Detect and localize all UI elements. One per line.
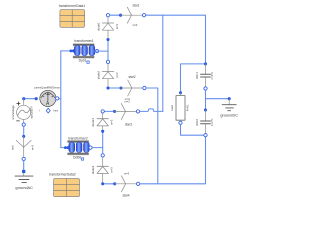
junction below diode3 — [101, 130, 104, 133]
star3 — [115, 100, 140, 127]
wire transformer2.plug2 to diode column 2 — [92, 147, 103, 149]
junction below diode4 — [101, 182, 104, 185]
wire sensor.plug_n to feeder rail — [59, 98, 61, 100]
svg-text:diode1: diode1 — [96, 22, 100, 31]
junction below diode1 — [106, 38, 109, 41]
svg-text:Dd06: Dd06 — [73, 155, 81, 159]
svg-text:m=3: m=3 — [124, 100, 130, 104]
svg-text:star1: star1 — [132, 4, 139, 8]
voltage source sineVoltage — [11, 99, 34, 127]
svg-text:groundAC: groundAC — [15, 185, 33, 190]
wire star2.pin_n to -DC vertical — [146, 88, 158, 184]
junction at star2 plug — [119, 86, 122, 89]
wire +DC vertical drop — [162, 15, 164, 111]
wire star3.pin_n with hop to +DC vertical — [140, 109, 163, 112]
svg-text:cDC1: cDC1 — [195, 72, 199, 79]
svg-text:m=3: m=3 — [132, 23, 138, 27]
star2 — [121, 75, 146, 101]
svg-text:currentQuasiRMSSensor: currentQuasiRMSSensor — [34, 87, 60, 90]
svg-text:transformerData1: transformerData1 — [59, 4, 85, 8]
wire star.pin_n to groundAC — [23, 161, 25, 172]
wire feeder to transformer1 — [61, 50, 71, 52]
wire +DC node to load top — [181, 64, 206, 93]
svg-text:star2: star2 — [128, 75, 135, 79]
svg-text:Dy01: Dy01 — [79, 59, 87, 63]
wire feeder to transformer2 — [61, 147, 66, 149]
star1 — [121, 4, 146, 28]
svg-text:C=2*C: C=2*C — [210, 118, 214, 126]
wire diode4.plug_n to star4 — [103, 183, 115, 185]
junction below diode2 — [106, 86, 109, 89]
junction at star3 plug — [113, 110, 116, 113]
wire diode2.plug_n to star2 — [108, 87, 121, 89]
junction at star4 plug — [113, 182, 116, 185]
wire cDC1 bottom to midpoint — [205, 90, 207, 110]
wire star4.pin_n -DC rail to cDC2 bottom — [140, 137, 206, 184]
wire sineVoltage.plug_p to currentQuasiRMSSensor.plug_p — [24, 98, 37, 100]
svg-text:I: I — [39, 110, 40, 113]
svg-text:sqrt(2/3)*V: sqrt(2/3)*V — [30, 106, 34, 119]
svg-text:star3: star3 — [125, 123, 132, 127]
record transformerData2 — [49, 172, 79, 196]
junction at sineVoltage top plug — [22, 97, 25, 100]
diode D3 diode3 — [91, 110, 114, 130]
svg-text:load: load — [170, 105, 174, 111]
star (AC neutral) — [11, 136, 35, 160]
wire transformer1.plug2 to diode column — [92, 50, 108, 52]
ground groundDC — [220, 99, 238, 118]
svg-text:star: star — [11, 145, 15, 150]
svg-text:m=3: m=3 — [110, 167, 114, 173]
wire diode3.plug_n to star3 — [104, 110, 114, 112]
svg-text:m=3: m=3 — [124, 172, 130, 176]
junction +DC node — [204, 62, 207, 65]
junction at star plug — [22, 135, 25, 138]
wire midpoint to groundDC — [206, 98, 230, 100]
wire star1.pin_n to +DC rail — [146, 15, 206, 64]
capacitor cDC1 — [195, 64, 214, 90]
wire diode1 to diode2 vertical — [107, 40, 109, 62]
svg-text:diode3: diode3 — [91, 118, 95, 127]
svg-text:transformer2: transformer2 — [68, 136, 87, 140]
transformer T2 transformer2 — [64, 136, 92, 160]
svg-text:transformerData2: transformerData2 — [49, 172, 75, 176]
svg-text:m=3: m=3 — [31, 144, 35, 150]
diode D2 diode2 — [96, 60, 119, 86]
svg-text:Irms: Irms — [53, 110, 58, 113]
svg-text:star4: star4 — [122, 194, 129, 198]
record transformerData1 — [59, 4, 85, 27]
svg-text:cDC2: cDC2 — [195, 118, 199, 125]
svg-text:groundDC: groundDC — [220, 113, 238, 118]
svg-text:diode4: diode4 — [91, 165, 95, 174]
junction at sensor left plug — [35, 97, 38, 100]
diode D1 diode1 — [96, 14, 119, 38]
star4 — [115, 172, 140, 198]
transformer T1 transformer1 — [70, 39, 99, 63]
junction load top — [179, 91, 182, 94]
junction at groundDC pin — [228, 97, 231, 100]
wire sineVoltage.plug_n to star.plug_p — [23, 126, 25, 136]
svg-text:m=3: m=3 — [115, 72, 119, 78]
sensor currentQuasiRMSSensor — [34, 87, 60, 114]
svg-text:R=RL: R=RL — [185, 104, 189, 111]
svg-text:m=3: m=3 — [110, 119, 114, 125]
junction midpoint — [204, 108, 207, 111]
svg-text:sineVoltage: sineVoltage — [11, 105, 15, 120]
resistor load — [170, 93, 189, 125]
svg-text:transformer1: transformer1 — [74, 39, 93, 43]
wire diode3 to diode4 vertical — [102, 131, 104, 155]
svg-text:m=3: m=3 — [115, 23, 119, 29]
wire feeder vertical rail — [60, 51, 62, 148]
capacitor cDC2 — [195, 110, 214, 137]
diode D4 diode4 — [91, 154, 114, 182]
ground groundAC — [15, 170, 33, 190]
svg-text:C=2*C: C=2*C — [210, 72, 214, 80]
svg-text:diode2: diode2 — [96, 70, 100, 79]
wire load bottom to cDC2 bottom — [181, 125, 204, 136]
junction at star1 plug — [119, 14, 122, 17]
wire diode1.plug_n to star1 — [110, 14, 121, 16]
